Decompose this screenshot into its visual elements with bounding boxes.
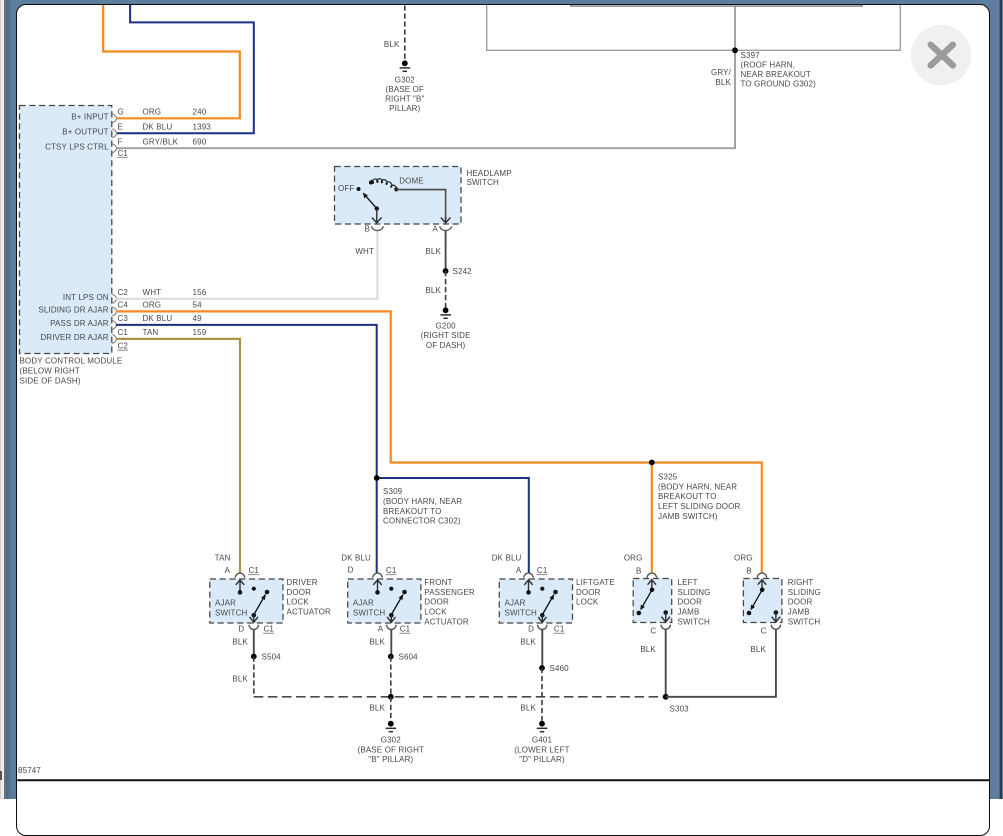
lever with arrow xyxy=(391,595,403,615)
wire BLK dashed junction to G302 xyxy=(390,697,392,721)
svg-text:BLK: BLK xyxy=(750,645,766,654)
pin A socket arc xyxy=(387,625,396,630)
pin B socket arc xyxy=(647,573,656,578)
svg-text:DOME: DOME xyxy=(399,177,424,186)
svg-text:A: A xyxy=(378,625,384,634)
svg-text:G401: G401 xyxy=(532,736,553,745)
svg-text:DK BLU: DK BLU xyxy=(143,314,173,323)
svg-text:TAN: TAN xyxy=(143,328,159,337)
liftgate door ajar switch SW4 xyxy=(499,573,572,629)
pin B arrow xyxy=(372,209,382,223)
svg-text:S325: S325 xyxy=(658,473,678,482)
pin C arrow xyxy=(775,613,777,622)
ajar switch box xyxy=(348,579,421,623)
wire DK BLU 1393 feed (top) xyxy=(116,5,254,133)
lever contact dot xyxy=(265,590,270,595)
svg-text:NEAR BREAKOUT: NEAR BREAKOUT xyxy=(741,70,811,79)
svg-text:ACTUATOR: ACTUATOR xyxy=(287,608,332,617)
wire BLK S303 to right jamb xyxy=(666,629,776,697)
svg-text:SWITCH: SWITCH xyxy=(467,178,500,187)
svg-text:AJAR: AJAR xyxy=(215,598,236,607)
svg-text:D: D xyxy=(238,625,244,634)
roof harness outer wire box xyxy=(487,5,901,50)
svg-text:BLK: BLK xyxy=(384,40,400,49)
svg-text:BLK: BLK xyxy=(715,78,731,87)
svg-text:(ROOF HARN,: (ROOF HARN, xyxy=(741,60,796,69)
svg-text:A: A xyxy=(433,224,439,233)
splice S397 junction dot xyxy=(732,47,738,53)
wire ORG branch to left jamb switch xyxy=(651,463,653,574)
svg-text:BLK: BLK xyxy=(369,637,385,646)
svg-text:SLIDING: SLIDING xyxy=(788,588,821,597)
pin A arrow xyxy=(441,217,451,223)
splice S303 junction dot xyxy=(663,694,669,700)
pin B socket arc xyxy=(372,226,384,230)
svg-text:DRIVER DR AJAR: DRIVER DR AJAR xyxy=(40,333,108,342)
pin E bracket xyxy=(112,129,117,138)
svg-text:HEADLAMP: HEADLAMP xyxy=(467,169,512,178)
svg-text:SWITCH: SWITCH xyxy=(215,608,248,617)
svg-text:OFF: OFF xyxy=(338,184,354,193)
front passenger door ajar switch SW3 xyxy=(348,573,421,629)
svg-text:FRONT: FRONT xyxy=(424,578,452,587)
fixed contact dot xyxy=(637,611,642,616)
svg-text:(BODY HARN, NEAR: (BODY HARN, NEAR xyxy=(383,497,462,506)
svg-text:BLK: BLK xyxy=(425,286,441,295)
wire DK BLU branch to liftgate xyxy=(377,478,529,573)
svg-text:RIGHT: RIGHT xyxy=(788,578,814,587)
pin B arrow xyxy=(651,580,653,590)
wire BLK left jamb pin C to S303 xyxy=(665,629,667,697)
svg-text:F: F xyxy=(118,138,123,147)
svg-text:C2: C2 xyxy=(118,288,129,297)
pin C1 bracket xyxy=(112,334,117,343)
svg-text:WHT: WHT xyxy=(355,247,374,256)
pin B socket arc xyxy=(757,573,766,578)
svg-text:54: 54 xyxy=(193,301,203,310)
svg-text:SWITCH: SWITCH xyxy=(788,617,821,626)
wire WHT 156 xyxy=(116,231,377,299)
wire ORG 54 xyxy=(116,311,762,573)
svg-text:BLK: BLK xyxy=(640,645,656,654)
junction dot at S604 ground line xyxy=(388,694,394,700)
svg-text:DOOR: DOOR xyxy=(576,588,601,597)
svg-text:C2: C2 xyxy=(118,342,129,351)
svg-text:JAMB SWITCH): JAMB SWITCH) xyxy=(658,512,718,521)
right contact dot xyxy=(663,610,668,615)
svg-text:159: 159 xyxy=(193,328,207,337)
splice S604 junction dot xyxy=(388,654,394,660)
wire BLK dashed S242 to G200 xyxy=(445,271,447,308)
body control module U1 (dashed box) xyxy=(20,106,112,354)
splice S325 junction dot xyxy=(649,460,655,466)
svg-text:DK BLU: DK BLU xyxy=(341,554,371,563)
pin G bracket xyxy=(112,114,117,123)
pin A socket arc xyxy=(235,573,244,578)
svg-text:D: D xyxy=(348,566,354,575)
svg-text:(BELOW RIGHT: (BELOW RIGHT xyxy=(20,367,80,376)
svg-text:ORG: ORG xyxy=(624,554,643,563)
svg-text:ORG: ORG xyxy=(143,301,162,310)
svg-text:"B" PILLAR): "B" PILLAR) xyxy=(368,755,413,764)
svg-text:DK BLU: DK BLU xyxy=(143,123,173,132)
svg-text:PILLAR): PILLAR) xyxy=(389,104,420,113)
svg-text:SWITCH: SWITCH xyxy=(353,608,386,617)
svg-text:SWITCH: SWITCH xyxy=(678,617,711,626)
switch lever (pivot to OFF) xyxy=(363,193,379,211)
svg-text:690: 690 xyxy=(193,138,207,147)
svg-text:DK BLU: DK BLU xyxy=(492,554,522,563)
svg-text:GRY/BLK: GRY/BLK xyxy=(143,138,179,147)
svg-text:DRIVER: DRIVER xyxy=(287,578,318,587)
svg-text:CTSY LPS CTRL: CTSY LPS CTRL xyxy=(45,143,109,152)
pin D socket arc xyxy=(538,625,547,630)
svg-text:85747: 85747 xyxy=(18,766,41,775)
svg-text:DOOR: DOOR xyxy=(678,598,703,607)
ajar switch box xyxy=(499,579,572,623)
svg-text:49: 49 xyxy=(193,314,203,323)
driver door ajar switch SW2 xyxy=(210,573,283,629)
svg-text:S309: S309 xyxy=(383,487,403,496)
svg-text:AJAR: AJAR xyxy=(353,598,374,607)
rheostat squiggle xyxy=(371,179,397,192)
svg-text:B: B xyxy=(636,567,642,576)
svg-text:C1: C1 xyxy=(264,625,275,634)
svg-text:DOOR: DOOR xyxy=(788,598,813,607)
lever with arrow xyxy=(752,590,763,608)
svg-text:G: G xyxy=(118,108,124,117)
svg-text:C1: C1 xyxy=(386,566,397,575)
wire BLK passenger pin A xyxy=(390,630,392,657)
svg-text:AJAR: AJAR xyxy=(505,598,526,607)
right sliding door jamb switch SW6 xyxy=(743,573,782,629)
svg-text:156: 156 xyxy=(193,288,207,297)
svg-text:SLIDING: SLIDING xyxy=(678,588,711,597)
svg-text:(BASE OF RIGHT: (BASE OF RIGHT xyxy=(358,745,425,754)
svg-text:G302: G302 xyxy=(381,736,402,745)
svg-text:DOOR: DOOR xyxy=(424,598,449,607)
svg-text:BLK: BLK xyxy=(520,637,536,646)
fixed contact dot xyxy=(389,587,393,591)
svg-text:BREAKOUT TO: BREAKOUT TO xyxy=(658,492,717,501)
lever contact dot xyxy=(402,590,407,595)
pin B arrow xyxy=(761,580,763,590)
svg-text:JAMB: JAMB xyxy=(678,608,700,617)
svg-text:A: A xyxy=(516,566,522,575)
svg-text:B+ INPUT: B+ INPUT xyxy=(71,113,108,122)
svg-text:D: D xyxy=(528,625,534,634)
ajar switch box xyxy=(210,579,283,623)
splice S460 junction dot xyxy=(539,665,545,671)
svg-text:C1: C1 xyxy=(537,566,548,575)
svg-text:C: C xyxy=(761,627,767,636)
svg-text:C4: C4 xyxy=(118,301,129,310)
jamb switch box xyxy=(743,579,782,623)
wire BLK dashed S504 down xyxy=(253,657,255,697)
svg-text:TAN: TAN xyxy=(215,554,231,563)
svg-text:GRY/: GRY/ xyxy=(711,68,732,77)
svg-text:1393: 1393 xyxy=(193,123,212,132)
bottom contact dot xyxy=(389,613,394,618)
lever with arrow xyxy=(642,590,653,608)
svg-text:LOCK: LOCK xyxy=(576,598,599,607)
ground G302 (top) xyxy=(400,60,411,71)
ground G302 (bottom) xyxy=(386,721,397,732)
svg-text:(RIGHT SIDE: (RIGHT SIDE xyxy=(421,331,471,340)
svg-text:S504: S504 xyxy=(262,652,282,661)
lever with arrow xyxy=(254,595,266,615)
wire BLK driver pin D xyxy=(253,630,255,657)
svg-text:LIFTGATE: LIFTGATE xyxy=(576,578,615,587)
pin A socket arc xyxy=(524,573,533,578)
wire BLK dashed S604 to junction xyxy=(390,657,392,697)
svg-text:A: A xyxy=(225,566,231,575)
svg-text:C1: C1 xyxy=(118,149,129,158)
wire DK BLU 49 xyxy=(116,325,377,573)
wire ORG 240 feed (top) xyxy=(103,5,240,118)
svg-text:C1: C1 xyxy=(118,328,129,337)
ground G200 xyxy=(440,307,451,318)
pin D socket arc xyxy=(249,625,258,630)
pin D socket arc xyxy=(373,573,382,578)
splice S504 junction dot xyxy=(251,654,257,660)
svg-text:DOOR: DOOR xyxy=(287,588,312,597)
splice S242 junction dot xyxy=(443,268,449,274)
svg-text:OF DASH): OF DASH) xyxy=(426,341,466,350)
close button xyxy=(911,25,971,85)
svg-text:"D" PILLAR): "D" PILLAR) xyxy=(519,755,565,764)
lever contact dot xyxy=(553,590,558,595)
pin D arrow xyxy=(541,615,543,622)
pin A socket arc xyxy=(440,226,452,230)
wire GRY/BLK 690 xyxy=(116,50,735,148)
diagram bottom rule xyxy=(17,779,989,781)
svg-text:(LOWER LEFT: (LOWER LEFT xyxy=(514,745,569,754)
jamb switch box xyxy=(633,579,672,623)
pin C3 bracket xyxy=(112,320,117,329)
svg-text:CONNECTOR C302): CONNECTOR C302) xyxy=(383,517,461,526)
svg-text:SLIDING DR AJAR: SLIDING DR AJAR xyxy=(38,306,108,315)
svg-text:TO GROUND G302): TO GROUND G302) xyxy=(741,80,817,89)
pin A arrow xyxy=(239,580,241,592)
svg-text:INT LPS ON: INT LPS ON xyxy=(63,293,109,302)
pin A arrow xyxy=(390,615,392,622)
svg-text:JAMB: JAMB xyxy=(788,608,810,617)
left page edge strip xyxy=(0,0,6,799)
wire roof harness drop to S397 xyxy=(734,6,736,50)
svg-text:E: E xyxy=(118,123,124,132)
svg-text:C1: C1 xyxy=(400,625,411,634)
svg-text:BLK: BLK xyxy=(425,247,441,256)
fixed contact dot xyxy=(540,587,544,591)
svg-text:S604: S604 xyxy=(399,652,419,661)
wire BLK to G302 (top, dashed) xyxy=(404,6,406,61)
rheostat end dots xyxy=(369,181,373,185)
svg-text:BLK: BLK xyxy=(232,675,248,684)
svg-text:SWITCH: SWITCH xyxy=(505,608,538,617)
pin D arrow xyxy=(377,580,379,592)
wire TAN 159 xyxy=(116,339,240,573)
svg-text:LEFT SLIDING DOOR: LEFT SLIDING DOOR xyxy=(658,502,740,511)
wire DOME to pin A xyxy=(396,190,446,220)
left sliding door jamb switch SW5 xyxy=(633,573,672,629)
wire BLK liftgate pin D xyxy=(541,630,543,669)
roof harness inner wire box xyxy=(571,5,862,6)
headlamp switch SW1 (dashed box) xyxy=(335,167,462,225)
pin C4 bracket xyxy=(112,307,117,316)
svg-text:BODY CONTROL MODULE: BODY CONTROL MODULE xyxy=(20,357,123,366)
splice S309 junction dot xyxy=(374,475,380,481)
svg-text:B+ OUTPUT: B+ OUTPUT xyxy=(62,128,108,137)
svg-text:LOCK: LOCK xyxy=(424,608,447,617)
pin D arrow xyxy=(253,615,255,622)
svg-text:(BODY HARN, NEAR: (BODY HARN, NEAR xyxy=(658,482,737,491)
svg-text:S397: S397 xyxy=(741,51,761,60)
svg-text:B: B xyxy=(365,224,371,233)
svg-text:C1: C1 xyxy=(249,566,260,575)
svg-text:BLK: BLK xyxy=(232,637,248,646)
fixed contact dot xyxy=(747,611,752,616)
svg-text:G302: G302 xyxy=(395,75,416,84)
right contact dot xyxy=(774,610,779,615)
ground G401 xyxy=(537,721,548,732)
svg-text:C1: C1 xyxy=(554,625,565,634)
pin C2 bracket xyxy=(112,294,117,303)
switch OFF contact dot xyxy=(357,187,361,191)
svg-text:240: 240 xyxy=(193,108,207,117)
scrollbar notch xyxy=(0,771,2,780)
pin C socket arc xyxy=(661,625,670,630)
svg-text:B: B xyxy=(746,567,752,576)
svg-text:LEFT: LEFT xyxy=(678,578,698,587)
pin A arrow xyxy=(528,580,530,592)
lever with arrow xyxy=(542,595,554,615)
svg-text:ORG: ORG xyxy=(734,554,753,563)
svg-text:SIDE OF DASH): SIDE OF DASH) xyxy=(20,376,81,385)
svg-text:RIGHT "B": RIGHT "B" xyxy=(385,95,424,104)
svg-text:BLK: BLK xyxy=(520,704,536,713)
pin C socket arc xyxy=(771,625,780,630)
svg-text:(BASE OF: (BASE OF xyxy=(386,85,425,94)
bottom contact dot xyxy=(252,613,257,618)
svg-text:S460: S460 xyxy=(550,664,570,673)
svg-text:G200: G200 xyxy=(436,322,457,331)
svg-text:BREAKOUT TO: BREAKOUT TO xyxy=(383,507,442,516)
wire BLK pin A to S242 xyxy=(445,231,447,272)
svg-text:BLK: BLK xyxy=(369,704,385,713)
bottom contact dot xyxy=(540,613,545,618)
pin C arrow xyxy=(665,613,667,622)
svg-text:WHT: WHT xyxy=(143,288,162,297)
wire BLK dashed S460 to G401 xyxy=(541,668,543,721)
wire BLK dashed horizontal S504 to S303 xyxy=(254,696,666,698)
pin F bracket xyxy=(112,144,117,153)
svg-text:C: C xyxy=(650,627,656,636)
svg-text:S303: S303 xyxy=(670,704,690,713)
svg-text:ORG: ORG xyxy=(143,108,162,117)
svg-text:S242: S242 xyxy=(453,267,473,276)
svg-text:ACTUATOR: ACTUATOR xyxy=(424,617,469,626)
svg-text:C3: C3 xyxy=(118,314,129,323)
svg-text:PASS DR AJAR: PASS DR AJAR xyxy=(50,319,109,328)
svg-text:PASSENGER: PASSENGER xyxy=(424,588,475,597)
fixed contact dot xyxy=(252,587,256,591)
svg-text:LOCK: LOCK xyxy=(287,598,310,607)
